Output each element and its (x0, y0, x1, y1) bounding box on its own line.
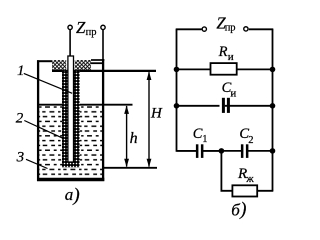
wire row C_i (177, 105, 273, 107)
top wire right segment (249, 28, 273, 30)
junction dot right (bottom row) (270, 148, 276, 154)
terminal left (circle) (68, 25, 72, 29)
vessel right wall (102, 59, 104, 181)
top wire left segment (176, 28, 202, 30)
svg-text:а: а (65, 185, 74, 204)
liquid (2) fill with dash texture (39, 104, 102, 178)
insulating lid (cross-hatched) (52, 60, 91, 71)
probe rod with bushing through lid (68, 56, 74, 162)
lid bottom edge continuing right as H reference line (52, 70, 156, 72)
vessel rim right segment (upper) (91, 59, 104, 61)
svg-text:C: C (193, 126, 203, 142)
svg-text:1: 1 (202, 134, 207, 145)
wire bottom row (177, 150, 273, 152)
vessel bottom (37, 178, 104, 181)
dimension h (double arrow) (124, 105, 129, 167)
leader line 1 (24, 73, 72, 93)
wire from R_zh to right rail (257, 190, 273, 192)
dimension H (double arrow) (147, 72, 152, 168)
wire from right terminal to vessel wall (102, 30, 104, 60)
svg-text:б: б (231, 200, 240, 219)
wire from C1-C2 junction down to R_zh (221, 151, 232, 191)
svg-text:): ) (239, 200, 246, 220)
label Z_pr (fig b) (216, 14, 235, 34)
wire row R (177, 68, 273, 70)
svg-text:R: R (218, 44, 228, 60)
svg-text:ж: ж (245, 174, 254, 185)
label C2 (239, 126, 253, 146)
capacitor C_i (220, 98, 230, 114)
svg-text:2: 2 (248, 135, 253, 146)
terminal right (circle) (101, 25, 105, 29)
label Z_pr (fig a) (76, 18, 96, 38)
svg-text:и: и (228, 51, 234, 63)
bottom reference line (102, 167, 157, 169)
resistor R_zh (232, 185, 257, 196)
wire from left terminal to probe (69, 30, 71, 56)
terminal left (fig b) (202, 27, 206, 31)
svg-text:2: 2 (16, 110, 24, 126)
label C1 (193, 126, 208, 145)
left rail wire (177, 29, 222, 151)
resistor R_i (211, 63, 237, 75)
junction dot left (row R) (174, 67, 180, 73)
leader line 2 (24, 121, 63, 139)
junction dot right (row R) (270, 67, 276, 73)
junction dot right (row C_i) (270, 103, 276, 109)
svg-text:h: h (130, 130, 138, 147)
vessel rim right segment (lower flange) (91, 62, 103, 64)
capacitor C2 (241, 144, 249, 158)
right rail wire (272, 29, 274, 191)
label R_zh (237, 166, 254, 185)
junction dot C1-C2 (219, 148, 225, 154)
vessel left wall (37, 60, 39, 181)
junction dot left (row C_i) (174, 103, 180, 109)
svg-text:): ) (72, 185, 79, 206)
liquid surface line / h reference line (39, 104, 133, 106)
label C_i (222, 80, 237, 100)
svg-text:H: H (150, 106, 163, 122)
leader line 3 (26, 159, 48, 168)
label R_i (218, 44, 234, 63)
capacitor C1 (196, 144, 204, 158)
svg-text:пр: пр (225, 23, 236, 34)
svg-text:пр: пр (86, 27, 97, 38)
svg-text:3: 3 (16, 149, 25, 165)
svg-text:1: 1 (17, 63, 25, 79)
terminal right (fig b) (244, 27, 248, 31)
vessel rim left segment (37, 60, 53, 62)
insulation tube (1) around probe, stippled (62, 71, 80, 167)
svg-text:и: и (230, 88, 236, 100)
svg-text:Z: Z (76, 18, 86, 37)
